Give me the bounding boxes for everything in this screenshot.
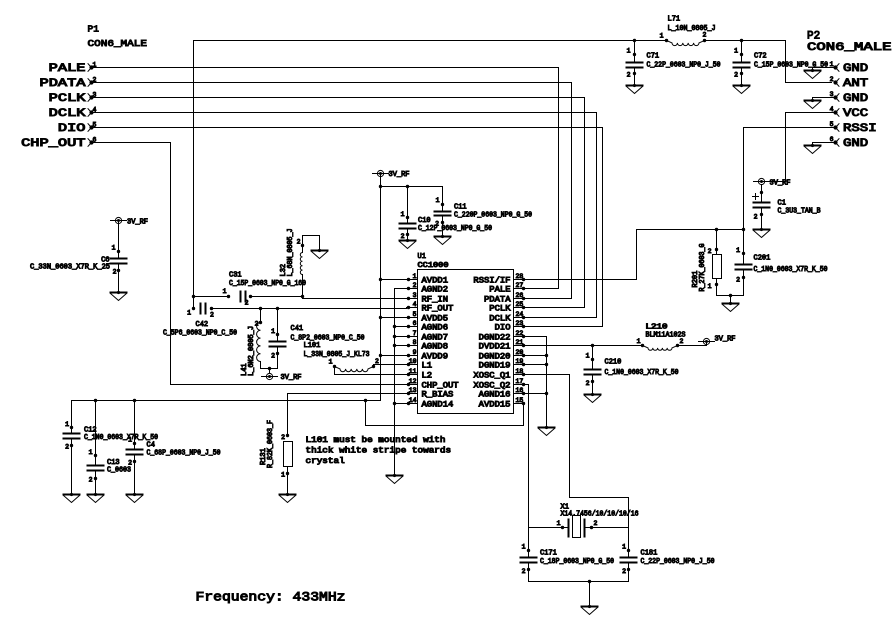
- svg-text:2: 2: [734, 72, 738, 79]
- wire RSSI from P2.5 to U1 pin28: [525, 128, 836, 280]
- svg-text:PDATA: PDATA: [484, 295, 511, 304]
- svg-text:RF_IN: RF_IN: [422, 295, 449, 304]
- wire AVDD vertical rail: [379, 174, 382, 401]
- svg-text:4: 4: [830, 106, 834, 113]
- wire L41 C41 to 3V_RF: [261, 367, 278, 373]
- svg-text:C_220P_0603_NP0_G_50: C_220P_0603_NP0_G_50: [454, 212, 532, 220]
- power 3V_RF above U1: [373, 170, 410, 179]
- svg-text:2: 2: [435, 221, 439, 228]
- capacitor C42: [163, 304, 237, 338]
- svg-text:RSSI: RSSI: [843, 123, 877, 135]
- wire AGND8 stub: [395, 345, 407, 347]
- connector P1 pin 3 PCLK: [49, 92, 97, 106]
- svg-text:5: 5: [830, 121, 834, 128]
- svg-text:DIO: DIO: [495, 323, 511, 332]
- ground below C1: [754, 228, 770, 238]
- svg-text:GND: GND: [843, 93, 869, 105]
- svg-text:C_18P_0603_NP0_G_50: C_18P_0603_NP0_G_50: [540, 558, 614, 566]
- svg-text:1: 1: [586, 353, 590, 360]
- ground below C72: [734, 84, 750, 94]
- svg-text:15: 15: [516, 397, 524, 404]
- svg-text:L101 must be mounted with: L101 must be mounted with: [306, 436, 446, 445]
- svg-text:AVDD5: AVDD5: [422, 314, 449, 323]
- svg-text:AGND14: AGND14: [422, 400, 454, 409]
- ground below C4: [127, 493, 143, 503]
- svg-text:P2: P2: [807, 31, 820, 43]
- svg-text:2: 2: [754, 214, 758, 221]
- svg-text:2: 2: [594, 520, 598, 527]
- svg-text:1: 1: [65, 421, 69, 428]
- power 3V_RF at L210: [699, 336, 736, 345]
- ground below C12: [64, 493, 80, 503]
- svg-text:AVDD9: AVDD9: [422, 352, 449, 361]
- wire DVDD21 to L210: [525, 342, 707, 348]
- connector P2 pin 2 ANT: [830, 76, 869, 90]
- svg-text:L71: L71: [668, 16, 681, 24]
- svg-text:CON6_MALE: CON6_MALE: [807, 42, 892, 54]
- capacitor C171: [521, 528, 615, 582]
- svg-text:X14.7456/10/10/10/16: X14.7456/10/10/10/16: [561, 511, 639, 519]
- svg-text:C72: C72: [754, 53, 767, 61]
- svg-text:20: 20: [516, 349, 524, 356]
- ground at P2 pin3: [805, 99, 821, 109]
- wire AGND16 stub: [525, 393, 547, 395]
- svg-text:R_BIAS: R_BIAS: [422, 390, 454, 399]
- capacitor C72: [734, 41, 829, 86]
- connector P1 pin 6 CHP_OUT: [21, 137, 96, 151]
- svg-text:1: 1: [128, 437, 132, 444]
- svg-text:23: 23: [516, 320, 524, 327]
- capacitor C41: [270, 309, 365, 369]
- svg-text:C_22P_0603_NP0_J_50: C_22P_0603_NP0_J_50: [647, 62, 721, 70]
- svg-text:R_27K_0603_G: R_27K_0603_G: [699, 244, 707, 292]
- wire AVDD branch to C10 C11: [381, 185, 443, 212]
- svg-text:1: 1: [734, 48, 738, 55]
- svg-text:RSSI/IF: RSSI/IF: [473, 276, 510, 285]
- wire ANT net top rail: [194, 39, 832, 83]
- node frequency label: [196, 591, 346, 605]
- svg-text:2: 2: [586, 380, 590, 387]
- svg-text:AGND7: AGND7: [422, 333, 449, 342]
- capacitor C181: [621, 528, 715, 582]
- svg-text:19: 19: [516, 358, 524, 365]
- wire ANT vertical to RF match: [192, 41, 195, 309]
- svg-text:1: 1: [329, 359, 333, 366]
- svg-text:2: 2: [271, 353, 275, 360]
- svg-text:10: 10: [409, 358, 417, 365]
- connector P2 pin 6 GND: [830, 136, 869, 150]
- ground at P2 pin1: [805, 69, 821, 79]
- svg-text:1: 1: [622, 544, 626, 551]
- svg-text:1: 1: [830, 61, 834, 68]
- capacitor C1: [753, 185, 821, 230]
- capacitor C210: [585, 346, 679, 395]
- svg-text:2: 2: [627, 72, 631, 79]
- svg-text:4: 4: [413, 301, 417, 308]
- ground below C6: [111, 291, 127, 301]
- wire PALE from P1.1 to U1 pin27: [92, 68, 559, 289]
- svg-text:2: 2: [622, 568, 626, 575]
- svg-text:C71: C71: [647, 53, 660, 61]
- svg-text:C_68P_0603_NP0_J_50: C_68P_0603_NP0_J_50: [147, 450, 221, 458]
- wire AGND14 stub: [395, 403, 407, 405]
- wire XOSC_Q1 to crystal: [525, 375, 629, 528]
- wire crystal row: [529, 527, 629, 529]
- capacitor C4: [127, 401, 221, 495]
- wire DGND bus right of U1: [525, 337, 549, 428]
- ground below R201 C201: [723, 302, 739, 312]
- svg-text:22: 22: [516, 330, 524, 337]
- wire RF_IN net: [194, 295, 407, 299]
- svg-text:1: 1: [401, 211, 405, 218]
- ground at L32: [312, 249, 328, 259]
- capacitor C6: [30, 221, 127, 293]
- inductor L32: [280, 229, 320, 297]
- svg-text:L1: L1: [422, 361, 433, 370]
- svg-text:C41: C41: [291, 325, 304, 333]
- svg-text:C_33N_0603_X7R_K_25: C_33N_0603_X7R_K_25: [30, 264, 110, 272]
- resistor R201: [692, 230, 722, 296]
- svg-text:C181: C181: [641, 550, 658, 558]
- svg-text:18: 18: [516, 368, 524, 375]
- wire R_BIAS to R131: [288, 394, 407, 436]
- svg-text:2: 2: [736, 277, 740, 284]
- svg-text:25: 25: [516, 301, 524, 308]
- svg-text:DGND19: DGND19: [479, 361, 511, 370]
- wire P2.1 GND stub: [813, 68, 836, 71]
- svg-text:CHP_OUT: CHP_OUT: [21, 138, 86, 150]
- svg-text:5: 5: [413, 311, 417, 318]
- svg-text:2: 2: [281, 434, 285, 441]
- svg-text:3V_RF: 3V_RF: [281, 374, 302, 382]
- power 3V_RF below L41: [262, 373, 302, 382]
- svg-text:26: 26: [516, 292, 524, 299]
- svg-text:2: 2: [401, 233, 405, 240]
- wire AVDD to AVDD15: [366, 401, 524, 426]
- connector P2 pin 5 RSSI: [830, 121, 877, 135]
- svg-text:2: 2: [245, 300, 249, 307]
- capacitor C12: [64, 421, 159, 495]
- svg-text:RF_OUT: RF_OUT: [422, 304, 454, 313]
- svg-text:C_5P6_0603_NP0_C_50: C_5P6_0603_NP0_C_50: [163, 330, 237, 338]
- svg-text:28: 28: [516, 273, 524, 280]
- svg-text:C_0603: C_0603: [107, 467, 131, 475]
- svg-text:1: 1: [660, 33, 664, 40]
- ground below AGND bus: [387, 474, 403, 484]
- svg-text:24: 24: [516, 311, 524, 318]
- svg-text:1: 1: [557, 520, 561, 527]
- ground below C71: [627, 84, 643, 94]
- svg-text:C201: C201: [754, 255, 771, 263]
- svg-text:17: 17: [516, 378, 524, 385]
- wire AGND7 stub: [395, 336, 407, 338]
- wire L2 stub to L101: [335, 367, 407, 375]
- wire RF_OUT net: [212, 307, 407, 310]
- wire PDATA from P1.2 to U1 pin26: [92, 83, 572, 299]
- svg-text:2: 2: [522, 568, 526, 575]
- svg-text:AGND16: AGND16: [479, 390, 511, 399]
- svg-text:L2: L2: [422, 371, 433, 380]
- svg-text:PALE: PALE: [489, 285, 510, 294]
- svg-text:PDATA: PDATA: [40, 78, 87, 90]
- svg-text:2: 2: [65, 444, 69, 451]
- svg-text:3V_RF: 3V_RF: [715, 336, 736, 344]
- connector P1 pin 2 PDATA: [40, 77, 97, 91]
- svg-text:AGND2: AGND2: [422, 285, 449, 294]
- svg-text:7: 7: [413, 330, 417, 337]
- svg-text:L101: L101: [304, 342, 321, 350]
- svg-text:C_12P_0603_NP0_G_50: C_12P_0603_NP0_G_50: [418, 225, 492, 233]
- svg-text:U1: U1: [418, 253, 426, 261]
- svg-text:2: 2: [708, 248, 712, 255]
- ground below R131: [280, 493, 296, 503]
- svg-text:2: 2: [128, 460, 132, 467]
- svg-text:3V_RF: 3V_RF: [770, 180, 791, 188]
- connector P2 header: [807, 31, 892, 55]
- svg-text:C_8P2_0603_NP0_C_50: C_8P2_0603_NP0_C_50: [291, 335, 365, 343]
- capacitor C11: [435, 197, 533, 237]
- svg-text:L_10N_0805_J: L_10N_0805_J: [668, 25, 716, 33]
- inductor L71: [660, 16, 716, 46]
- svg-text:9: 9: [413, 349, 417, 356]
- svg-text:1: 1: [637, 338, 641, 345]
- svg-text:1: 1: [708, 283, 712, 290]
- svg-text:AGND6: AGND6: [422, 323, 449, 332]
- ground below crystal: [582, 605, 598, 615]
- svg-text:3V_RF: 3V_RF: [127, 219, 148, 227]
- ground below C210: [585, 393, 601, 403]
- wire AVDD1 stub: [381, 279, 407, 281]
- svg-text:1: 1: [522, 544, 526, 551]
- connector P1 header: [88, 24, 148, 50]
- svg-text:27: 27: [516, 282, 524, 289]
- svg-text:VCC: VCC: [843, 108, 869, 120]
- ground below C11: [435, 235, 451, 245]
- svg-text:2: 2: [830, 76, 834, 83]
- svg-text:2: 2: [113, 269, 117, 276]
- wire AGND bus left of U1: [393, 289, 407, 476]
- capacitor C31: [223, 272, 306, 307]
- svg-text:R_82K_0603_F: R_82K_0603_F: [267, 420, 275, 468]
- svg-text:C_1N0_0603_X7R_K_50: C_1N0_0603_X7R_K_50: [754, 266, 828, 274]
- svg-text:1: 1: [89, 449, 93, 456]
- svg-text:3: 3: [413, 292, 417, 299]
- svg-text:DVDD21: DVDD21: [479, 342, 511, 351]
- svg-text:1: 1: [436, 197, 440, 204]
- svg-text:XOSC_Q1: XOSC_Q1: [473, 371, 510, 380]
- svg-text:C_15P_0603_NP0_G_50: C_15P_0603_NP0_G_50: [754, 62, 828, 70]
- svg-text:C_15P_0603_NP0_G_160: C_15P_0603_NP0_G_160: [229, 280, 306, 288]
- wire DIO from P1.5 to U1 pin23: [92, 128, 603, 327]
- svg-text:ANT: ANT: [843, 78, 869, 90]
- connector P1 pin 4 DCLK: [49, 107, 97, 121]
- wire P2.6 GND stub: [813, 143, 836, 146]
- connector P2 pin 1 GND: [830, 61, 869, 75]
- note L101 mounting: [306, 436, 452, 466]
- wire PCLK from P1.3 to U1 pin25: [92, 98, 585, 308]
- svg-text:Frequency: 433MHz: Frequency: 433MHz: [196, 591, 346, 605]
- svg-text:C_1N0_0603_X7R_K_50: C_1N0_0603_X7R_K_50: [605, 369, 679, 377]
- svg-text:1: 1: [223, 288, 227, 295]
- svg-text:14: 14: [409, 397, 417, 404]
- svg-text:1: 1: [413, 273, 417, 280]
- capacitor C201: [736, 247, 828, 296]
- svg-text:1: 1: [112, 245, 116, 252]
- svg-text:DGND22: DGND22: [479, 333, 511, 342]
- inductor L41: [241, 309, 262, 377]
- wire DGND19 stub: [525, 364, 547, 366]
- svg-text:L210: L210: [646, 324, 668, 332]
- svg-text:2: 2: [210, 312, 214, 319]
- ground below C10: [400, 239, 416, 249]
- svg-text:L_68N_0805_J: L_68N_0805_J: [287, 229, 295, 277]
- wire AVDD bottom rail: [72, 399, 381, 434]
- connector P1 pin 5 DIO: [58, 122, 97, 136]
- svg-text:C31: C31: [229, 272, 242, 280]
- inductor L210: [637, 324, 686, 351]
- capacitor C71: [627, 41, 721, 86]
- capacitor C10: [400, 187, 493, 241]
- wire DGND20 stub: [525, 355, 547, 357]
- svg-text:C10: C10: [418, 217, 431, 225]
- wire CHP_OUT from P1.6 to U1 pin12: [92, 143, 408, 385]
- wire AVDD5 stub: [381, 317, 407, 319]
- svg-text:DIO: DIO: [58, 123, 86, 135]
- connector P2 pin 4 VCC: [830, 106, 869, 120]
- svg-text:CC1000: CC1000: [418, 262, 449, 270]
- svg-text:21: 21: [516, 339, 524, 346]
- svg-text:12: 12: [409, 378, 417, 385]
- svg-text:PCLK: PCLK: [49, 93, 86, 105]
- svg-text:PCLK: PCLK: [489, 304, 510, 313]
- svg-text:P1: P1: [88, 24, 100, 35]
- svg-text:8: 8: [413, 339, 417, 346]
- svg-text:XOSC_Q2: XOSC_Q2: [473, 381, 510, 390]
- svg-text:C42: C42: [196, 321, 209, 329]
- svg-text:16: 16: [516, 387, 524, 394]
- svg-text:GND: GND: [843, 63, 869, 75]
- svg-text:2: 2: [89, 477, 93, 484]
- svg-text:1: 1: [271, 328, 275, 335]
- svg-text:2: 2: [297, 239, 301, 246]
- svg-text:C4: C4: [147, 442, 155, 450]
- ground below C13: [88, 493, 104, 503]
- svg-text:crystal: crystal: [306, 457, 345, 466]
- svg-text:DCLK: DCLK: [489, 314, 510, 323]
- crystal X1: [557, 504, 639, 538]
- wire VCC from P2.4 to 3V_RF: [765, 113, 836, 182]
- svg-text:11: 11: [409, 368, 417, 375]
- power 3V_RF at VCC: [754, 178, 791, 187]
- svg-text:thick white stripe towards: thick white stripe towards: [306, 447, 452, 456]
- svg-text:AVDD15: AVDD15: [479, 400, 511, 409]
- svg-text:C_22P_0603_NP0_J_50: C_22P_0603_NP0_J_50: [641, 558, 715, 566]
- power 3V_RF at C6: [111, 217, 149, 226]
- svg-text:13: 13: [409, 387, 417, 394]
- svg-text:BLM11A102S: BLM11A102S: [646, 332, 686, 340]
- svg-text:2: 2: [375, 358, 379, 365]
- wire L1 stub to L101: [374, 365, 407, 367]
- capacitor C13: [88, 401, 132, 495]
- svg-text:1: 1: [736, 247, 740, 254]
- svg-text:C1: C1: [778, 200, 786, 208]
- svg-text:L_33N_0805_J_KL73: L_33N_0805_J_KL73: [304, 351, 370, 359]
- connector P1 pin 1 PALE: [49, 62, 97, 76]
- ground below DGND bus: [539, 426, 555, 436]
- svg-text:1: 1: [187, 310, 191, 317]
- svg-text:2: 2: [413, 282, 417, 289]
- svg-text:AVDD1: AVDD1: [422, 276, 449, 285]
- IC U1 CC1000: [407, 253, 526, 414]
- svg-text:DCLK: DCLK: [49, 108, 86, 120]
- wire AGND6 stub: [395, 326, 407, 328]
- svg-text:GND: GND: [843, 138, 869, 150]
- svg-text:3: 3: [830, 91, 834, 98]
- svg-text:PALE: PALE: [49, 63, 86, 75]
- svg-text:6: 6: [413, 320, 417, 327]
- svg-text:CON6_MALE: CON6_MALE: [88, 38, 148, 49]
- wire XOSC_Q2 to crystal: [525, 385, 529, 528]
- ground at P2 pin6: [805, 144, 821, 154]
- svg-text:6: 6: [830, 136, 834, 143]
- connector P2 pin 3 GND: [830, 91, 869, 105]
- svg-text:C210: C210: [605, 359, 622, 367]
- resistor R131: [260, 420, 293, 495]
- svg-text:DGND20: DGND20: [479, 352, 511, 361]
- svg-text:AGND8: AGND8: [422, 342, 449, 351]
- svg-text:C_3U3_TAN_B: C_3U3_TAN_B: [778, 208, 821, 216]
- svg-text:3V_RF: 3V_RF: [389, 171, 410, 179]
- wire crystal ground rail: [529, 580, 629, 607]
- wire R201 C201 to ground: [717, 294, 744, 304]
- svg-text:C171: C171: [540, 550, 557, 558]
- svg-text:1: 1: [627, 48, 631, 55]
- svg-text:L_6N2_0805_J: L_6N2_0805_J: [248, 326, 256, 376]
- wire P2.3 GND stub: [813, 98, 836, 101]
- svg-text:C11: C11: [454, 204, 467, 212]
- wire AVDD9 stub: [381, 355, 407, 357]
- inductor L101: [304, 342, 380, 372]
- wire DCLK from P1.4 to U1 pin24: [92, 113, 597, 318]
- svg-text:CHP_OUT: CHP_OUT: [422, 381, 459, 390]
- svg-text:1: 1: [281, 472, 285, 479]
